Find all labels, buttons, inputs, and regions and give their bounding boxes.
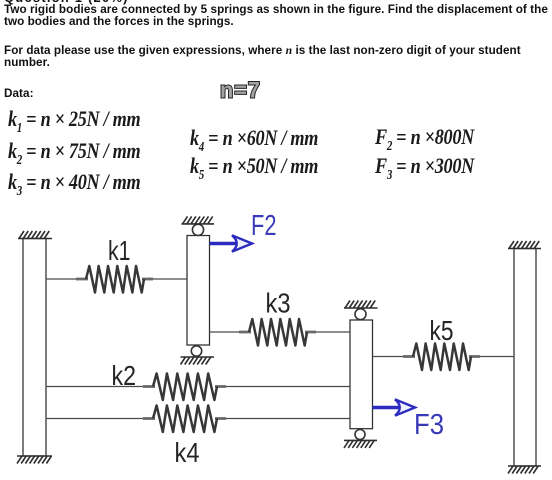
svg-text:k5: k5	[430, 315, 454, 346]
svg-text:n=7: n=7	[220, 78, 261, 103]
svg-text:k3: k3	[266, 288, 291, 319]
svg-text:F3: F3	[414, 409, 444, 441]
svg-text:F2: F2	[251, 210, 277, 242]
svg-text:k1: k1	[108, 235, 131, 266]
svg-text:k2: k2	[112, 360, 137, 391]
svg-text:k4: k4	[175, 437, 200, 468]
